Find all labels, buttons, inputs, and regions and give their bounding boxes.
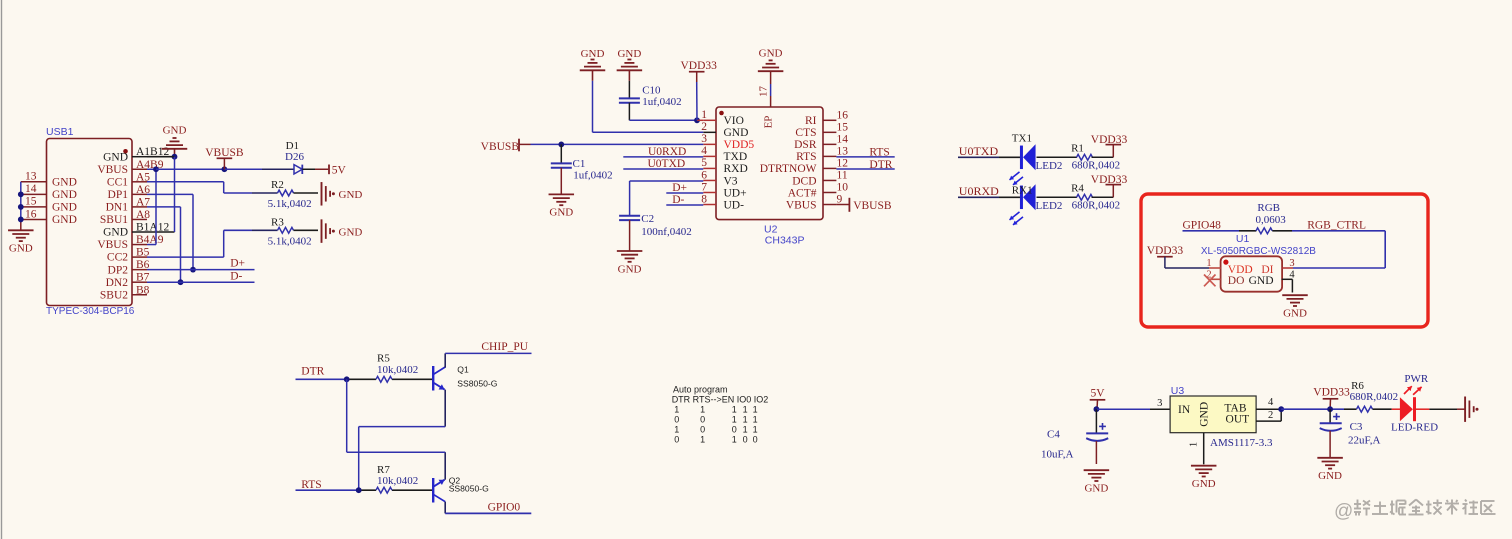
svg-text:VDD33: VDD33 [1091,174,1128,186]
svg-text:D-: D- [230,271,242,283]
svg-text:VBUSB: VBUSB [481,141,520,153]
svg-text:16: 16 [837,110,849,122]
svg-text:C3: C3 [1350,421,1363,433]
svg-text:2: 2 [1268,410,1273,421]
svg-text:U0TXD: U0TXD [959,144,999,158]
svg-text:PWR: PWR [1404,373,1429,385]
svg-text:RTS: RTS [796,151,816,163]
svg-text:0: 0 [732,425,737,435]
svg-text:RTS: RTS [301,479,321,491]
svg-text:5.1k,0402: 5.1k,0402 [268,198,312,210]
svg-text:GND: GND [759,48,783,60]
svg-text:GND: GND [617,48,641,60]
svg-text:1: 1 [753,405,758,415]
svg-text:VDD: VDD [1228,264,1253,276]
svg-text:IN: IN [1178,404,1191,416]
svg-text:C10: C10 [642,85,661,97]
svg-text:GND: GND [618,263,642,275]
svg-text:GND: GND [52,189,77,201]
svg-text:1: 1 [701,109,707,121]
svg-text:GPIO48: GPIO48 [1183,219,1222,231]
svg-text:13: 13 [837,146,849,158]
svg-text:RGB_CTRL: RGB_CTRL [1307,219,1366,231]
svg-text:DSR: DSR [794,139,817,151]
svg-text:LED2: LED2 [1036,200,1063,212]
svg-text:R1: R1 [1071,142,1084,154]
svg-text:GPIO0: GPIO0 [488,502,521,514]
svg-text:5V: 5V [332,165,347,177]
svg-text:U0TXD: U0TXD [648,158,686,170]
svg-text:14: 14 [837,134,849,146]
svg-text:VBUSB: VBUSB [853,200,892,212]
svg-text:GND: GND [1318,470,1342,482]
svg-text:4: 4 [701,145,707,157]
svg-text:22uF,A: 22uF,A [1348,435,1380,447]
svg-text:TX1: TX1 [1012,133,1032,145]
svg-text:8: 8 [701,193,707,205]
svg-text:EP: EP [763,116,775,129]
svg-text:1: 1 [674,405,679,415]
svg-text:SS8050-G: SS8050-G [457,378,497,388]
svg-text:DO: DO [1228,275,1245,287]
svg-text:GND: GND [103,227,128,239]
svg-text:RGB: RGB [1257,202,1280,214]
svg-text:100nf,0402: 100nf,0402 [641,226,691,238]
svg-text:10k,0402: 10k,0402 [377,475,418,487]
svg-text:OUT: OUT [1226,414,1250,426]
svg-text:1: 1 [732,405,737,415]
svg-text:SS8050-G: SS8050-G [449,483,489,493]
svg-text:C1: C1 [573,158,586,170]
svg-text:UD+: UD+ [724,187,747,199]
svg-text:0: 0 [753,435,758,445]
svg-text:3: 3 [1157,398,1162,409]
svg-text:680R,0402: 680R,0402 [1072,160,1121,172]
svg-text:1: 1 [743,425,748,435]
svg-text:GND: GND [339,189,363,201]
svg-text:10: 10 [837,182,849,194]
svg-text:VDD33: VDD33 [1313,387,1350,399]
svg-text:VDD5: VDD5 [724,139,755,151]
svg-text:5V: 5V [1090,388,1105,400]
svg-text:16: 16 [25,208,37,220]
svg-text:CC1: CC1 [107,176,128,188]
svg-text:R5: R5 [377,353,390,365]
svg-text:VBUS: VBUS [97,164,128,176]
svg-text:GND: GND [52,202,77,214]
svg-text:TYPEC-304-BCP16: TYPEC-304-BCP16 [46,306,135,317]
svg-text:RI: RI [805,115,817,127]
svg-text:VBUS: VBUS [97,239,128,251]
svg-text:10uF,A: 10uF,A [1041,449,1073,461]
svg-text:1: 1 [1189,442,1200,447]
svg-text:2: 2 [701,121,707,133]
svg-text:D26: D26 [285,151,304,163]
svg-text:0: 0 [700,425,705,435]
svg-text:0: 0 [674,415,679,425]
svg-text:R4: R4 [1071,182,1084,194]
svg-text:U3: U3 [1171,385,1185,397]
svg-text:CHIP_PU: CHIP_PU [481,341,528,353]
svg-text:1: 1 [700,435,705,445]
svg-text:5.1k,0402: 5.1k,0402 [268,235,312,247]
svg-text:VDD33: VDD33 [1147,245,1184,257]
svg-text:RX1: RX1 [1012,184,1033,196]
svg-text:VBUSB: VBUSB [205,147,244,159]
svg-text:1uf,0402: 1uf,0402 [642,96,681,108]
svg-text:Auto program: Auto program [673,384,728,394]
svg-text:@: @ [1334,501,1353,522]
svg-text:1uf,0402: 1uf,0402 [573,170,612,182]
svg-text:GND: GND [103,151,128,163]
svg-text:XL-5050RGBC-WS2812B: XL-5050RGBC-WS2812B [1201,246,1316,257]
svg-text:0: 0 [743,435,748,445]
svg-text:DN2: DN2 [106,277,129,289]
svg-text:10k,0402: 10k,0402 [377,364,418,376]
svg-text:R7: R7 [377,464,390,476]
svg-text:0: 0 [674,435,679,445]
svg-text:GND: GND [724,127,749,139]
svg-text:CTS: CTS [795,127,816,139]
svg-text:RXD: RXD [724,163,748,175]
svg-text:Q1: Q1 [457,364,469,374]
svg-text:1: 1 [743,415,748,425]
svg-text:1: 1 [732,435,737,445]
svg-text:15: 15 [837,122,849,134]
svg-text:DP1: DP1 [108,189,129,201]
svg-text:D+: D+ [230,258,245,270]
svg-text:GND: GND [52,176,77,188]
svg-text:1: 1 [743,405,748,415]
svg-text:VBUS: VBUS [786,199,817,211]
svg-text:GND: GND [1249,275,1274,287]
svg-text:GND: GND [549,207,573,219]
svg-text:17: 17 [758,86,770,98]
svg-text:1: 1 [674,425,679,435]
svg-text:R3: R3 [271,216,284,228]
svg-text:11: 11 [837,170,848,182]
svg-text:GND: GND [163,125,187,137]
svg-text:TXD: TXD [724,151,748,163]
svg-text:DI: DI [1261,264,1273,276]
svg-text:1: 1 [732,415,737,425]
svg-text:680R,0402: 680R,0402 [1072,200,1121,212]
svg-text:GND: GND [581,48,605,60]
svg-text:5: 5 [701,157,707,169]
svg-text:V3: V3 [724,175,738,187]
svg-text:CH343P: CH343P [765,234,805,246]
svg-text:12: 12 [837,158,849,170]
svg-text:DTR: DTR [301,365,324,377]
svg-text:680R,0402: 680R,0402 [1350,391,1399,403]
svg-text:U0RXD: U0RXD [959,184,999,198]
svg-text:GND: GND [339,226,363,238]
svg-text:13: 13 [25,171,37,183]
svg-text:LED2: LED2 [1036,160,1063,172]
svg-text:0: 0 [700,415,705,425]
svg-text:1: 1 [700,405,705,415]
svg-text:3: 3 [701,133,707,145]
svg-text:SBU1: SBU1 [100,214,128,226]
svg-text:LED-RED: LED-RED [1391,422,1438,434]
svg-text:C4: C4 [1047,428,1060,440]
svg-text:DTRTNOW: DTRTNOW [760,163,817,175]
svg-text:U1: U1 [1236,233,1250,245]
svg-text:DP2: DP2 [108,264,129,276]
svg-text:C2: C2 [641,213,654,225]
svg-text:GND: GND [1192,478,1216,490]
svg-text:7: 7 [701,181,707,193]
svg-text:GND: GND [52,214,77,226]
svg-text:0,0603: 0,0603 [1256,214,1287,226]
svg-text:AMS1117-3.3: AMS1117-3.3 [1210,437,1273,449]
svg-text:VDD33: VDD33 [680,60,717,72]
svg-text:14: 14 [25,183,37,195]
svg-text:GND: GND [1199,402,1211,427]
svg-text:D-: D- [672,194,684,206]
svg-text:SBU2: SBU2 [100,289,128,301]
svg-text:GND: GND [1084,483,1108,495]
svg-text:15: 15 [25,196,37,208]
svg-text:ACT#: ACT# [788,187,817,199]
svg-text:UD-: UD- [724,199,745,211]
svg-text:1: 1 [753,415,758,425]
svg-text:DTR RTS-->EN IO0 IO2: DTR RTS-->EN IO0 IO2 [672,394,769,404]
svg-text:GND: GND [1283,308,1307,320]
svg-text:USB1: USB1 [46,126,74,138]
svg-text:VIO: VIO [724,115,744,127]
svg-text:DN1: DN1 [106,202,129,214]
svg-text:R2: R2 [271,179,284,191]
svg-text:6: 6 [701,169,707,181]
svg-text:CC2: CC2 [107,252,128,264]
svg-text:VDD33: VDD33 [1091,134,1128,146]
svg-text:1: 1 [753,425,758,435]
svg-text:DCD: DCD [792,175,816,187]
svg-text:D+: D+ [672,182,687,194]
svg-text:4: 4 [1268,397,1274,408]
svg-text:GND: GND [9,243,33,255]
